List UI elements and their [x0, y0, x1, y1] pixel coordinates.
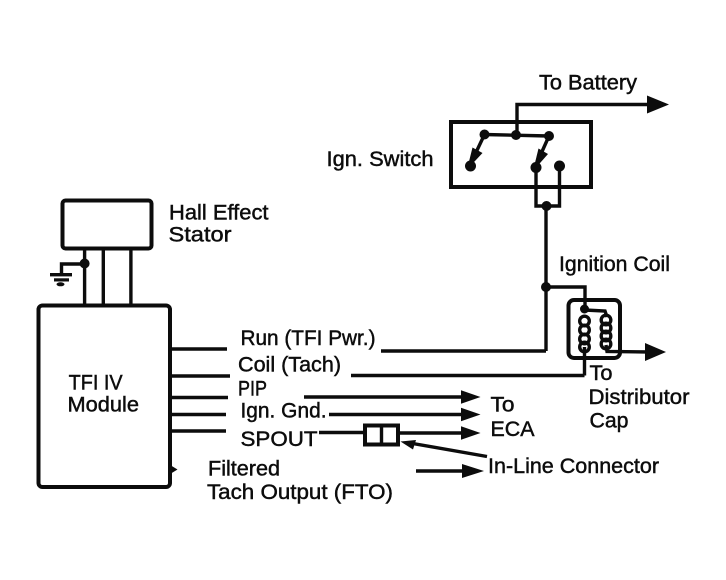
svg-text:Ign. Gnd.: Ign. Gnd. [241, 400, 327, 423]
svg-text:Coil (Tach): Coil (Tach) [238, 354, 341, 377]
ignition switch box [451, 122, 591, 187]
svg-text:To: To [491, 394, 515, 417]
switch contact left lower [465, 161, 476, 172]
svg-text:Filtered: Filtered [208, 458, 280, 481]
svg-text:ECA: ECA [491, 418, 535, 441]
coil primary winding [580, 316, 590, 352]
svg-text:Hall Effect: Hall Effect [169, 202, 269, 225]
junction switch output [542, 201, 552, 211]
wire ignition feed [544, 206, 547, 351]
switch blade left [471, 135, 485, 165]
wire coil primary feed [546, 287, 585, 306]
switch contact left upper [480, 130, 490, 140]
wire FTO [416, 469, 464, 472]
svg-text:In-Line Connector: In-Line Connector [488, 455, 659, 478]
arrow in-line connector pointer [410, 443, 487, 457]
wire SPOUT to ECA [398, 431, 462, 434]
ground symbol [50, 273, 72, 286]
wire ground lead [62, 264, 85, 274]
junction coil branch [541, 282, 551, 292]
wire coil primary bottom [583, 347, 586, 376]
wire switch output legs [536, 166, 560, 206]
pin stub PIP [170, 396, 228, 399]
wire Ign Gnd to ECA [329, 413, 462, 416]
junction ground tap [80, 259, 90, 269]
TFI IV module [39, 306, 171, 488]
arrowhead PIP [461, 390, 481, 404]
wire SPOUT to connector [319, 431, 365, 434]
svg-text:Module: Module [68, 394, 140, 417]
arrowhead to distributor [645, 343, 666, 361]
in-line connector [365, 426, 398, 445]
switch contact aux [554, 161, 565, 172]
svg-text:TFI IV: TFI IV [69, 372, 123, 395]
pin stub Run [170, 347, 227, 350]
svg-text:PIP: PIP [238, 378, 267, 401]
pin stub Ign Gnd [170, 413, 226, 416]
wire battery feed [517, 105, 650, 138]
svg-text:Ign. Switch: Ign. Switch [327, 148, 434, 171]
wire run [381, 349, 546, 352]
switch contact right upper [544, 131, 554, 141]
ignition coil [569, 300, 621, 358]
node coil primary top [580, 305, 589, 314]
pin stub SPOUT [170, 429, 226, 432]
pin stub Coil [170, 374, 230, 377]
svg-text:SPOUT: SPOUT [241, 428, 318, 451]
wire stator lead 2 [102, 248, 105, 305]
wire stator lead 3 [129, 248, 132, 305]
svg-text:Tach Output (FTO): Tach Output (FTO) [207, 481, 393, 504]
arrowhead FTO [462, 464, 484, 478]
arrowhead SPOUT [461, 426, 481, 440]
wire coil tach [351, 374, 585, 377]
wire PIP to ECA [304, 395, 462, 398]
arrowhead to battery [647, 96, 669, 114]
switch contact right lower [531, 162, 542, 173]
hall effect stator [63, 201, 152, 249]
wire coil top link [585, 310, 608, 317]
svg-text:Cap: Cap [590, 410, 629, 433]
wire stator lead 1 [83, 248, 86, 305]
wire coil secondary out [606, 345, 650, 352]
svg-text:To: To [590, 362, 613, 385]
coil secondary winding [601, 315, 611, 349]
svg-text:To Battery: To Battery [539, 72, 638, 95]
svg-text:Run (TFI Pwr.): Run (TFI Pwr.) [241, 327, 376, 350]
svg-text:Stator: Stator [169, 224, 232, 247]
svg-text:Distributor: Distributor [589, 386, 690, 409]
svg-text:Ignition Coil: Ignition Coil [559, 253, 670, 276]
switch blade right [536, 136, 549, 165]
wire switch bus [484, 135, 549, 137]
arrowhead Ign Gnd [461, 408, 481, 422]
arrowhead FTO output [169, 464, 178, 475]
node battery feed [511, 130, 521, 140]
